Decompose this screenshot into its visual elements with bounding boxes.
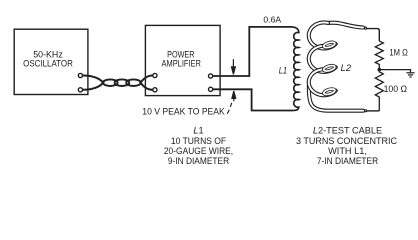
oscillator box U1 — [14, 29, 88, 94]
svg-text:WITH L1,: WITH L1, — [328, 146, 367, 156]
annotation arrow: voltage up — [232, 91, 236, 101]
annotation dashed pointer — [227, 103, 232, 114]
amplifier output terminal bottom — [209, 87, 213, 91]
power amplifier box U2 — [145, 25, 220, 95]
coil L2 turn 3 ring — [309, 69, 336, 95]
wire: junction to ground — [379, 70, 410, 73]
node junction dot — [378, 68, 382, 72]
coil L2 exit run — [309, 85, 363, 111]
svg-text:L2-TEST CABLE: L2-TEST CABLE — [313, 126, 382, 136]
wire: amplifier top output to L1 top — [213, 27, 292, 76]
cable end cap top: connector nub — [364, 27, 366, 29]
amplifier input terminal bottom — [153, 88, 157, 92]
twisted pair loop 1 — [103, 79, 118, 86]
oscillator output terminal bottom — [78, 88, 82, 92]
svg-text:10 V PEAK TO PEAK: 10 V PEAK TO PEAK — [142, 107, 225, 118]
annotation arrow: current direction down — [232, 59, 236, 74]
wire: amplifier bottom output to L1 bottom — [213, 89, 293, 110]
wire: L2 top end to resistor chain — [366, 29, 379, 41]
resistor R1 1M ohm — [375, 41, 383, 70]
coil L2 turn 1 crossover curl — [323, 41, 335, 49]
amplifier input terminal top — [153, 73, 157, 77]
svg-text:OSCILLATOR: OSCILLATOR — [23, 58, 73, 68]
svg-text:7-IN DIAMETER: 7-IN DIAMETER — [317, 156, 379, 166]
twisted pair loop 2 — [115, 79, 130, 86]
svg-text:1M Ω: 1M Ω — [389, 47, 408, 57]
wire: twisted pair right crossing — [140, 75, 153, 89]
coil L2 turn 2 ring — [309, 46, 336, 72]
coil L2 turn 2 crossover curl — [323, 65, 335, 73]
svg-text:20-GAUGE WIRE,: 20-GAUGE WIRE, — [164, 146, 233, 156]
coil L2 turn 3 crossover curl — [323, 88, 335, 96]
svg-text:9-IN DIAMETER: 9-IN DIAMETER — [168, 156, 230, 166]
wire: resistor bottom to L2 bottom end — [367, 110, 380, 112]
svg-text:AMPLIFIER: AMPLIFIER — [162, 59, 202, 69]
svg-text:0.6A: 0.6A — [263, 16, 281, 25]
resistor R2 100 ohm — [375, 70, 383, 111]
coil L2 turn 1 ring — [309, 22, 336, 48]
svg-text:L1: L1 — [193, 126, 203, 136]
svg-text:10 TURNS OF: 10 TURNS OF — [171, 136, 227, 146]
svg-text:L2: L2 — [341, 63, 351, 73]
amplifier output terminal top — [209, 74, 213, 78]
twisted pair loop 3 — [126, 79, 141, 86]
svg-text:L1: L1 — [279, 66, 287, 76]
coil L2 test cable: entry run — [328, 23, 363, 28]
oscillator output terminal top — [78, 73, 82, 77]
inductor L1 coil — [292, 27, 299, 111]
svg-text:3 TURNS CONCENTRIC: 3 TURNS CONCENTRIC — [296, 136, 397, 146]
ground symbol — [406, 73, 414, 77]
caption L1 coil description — [164, 126, 233, 167]
wire: twisted pair left crossing — [83, 75, 104, 89]
svg-text:100 Ω: 100 Ω — [384, 84, 408, 94]
cable end cap bottom: connector nub — [365, 110, 367, 112]
caption L2 cable description — [296, 126, 397, 167]
